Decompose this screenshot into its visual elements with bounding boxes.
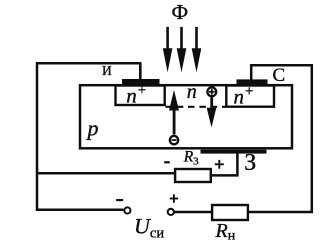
wire: R3 to left vertical [37,172,175,175]
wire: gate down-lead to R3 [212,154,238,176]
electron arrow (up) [169,90,179,135]
p substrate box [80,85,292,148]
gate contact bar [201,150,267,154]
source contact bar [122,79,160,85]
wire: source down-lead [139,63,142,80]
light arrow 2 [177,27,187,73]
wire: left loop (top-left horizontal, left vertical, bottom-left horizontal) [37,63,141,210]
svg-text:R3: R3 [183,149,199,168]
svg-text:Rн: Rн [215,220,236,244]
polarity minus (left of R3) [164,161,170,163]
hole arrow (down) [207,97,217,128]
svg-text:p: p [86,116,99,141]
hole symbol (circled plus) [207,87,216,96]
polarity plus (right of R3) [215,160,224,169]
light arrow 3 [192,27,202,73]
drain contact bar [237,79,268,85]
svg-text:n: n [187,81,197,103]
n+ drain region box [226,86,274,107]
svg-text:С: С [273,65,286,86]
svg-text:Uси: Uси [134,214,164,242]
wire: drain up-lead, top-right horizontal, right vertical, bottom-right horizontal [249,65,312,212]
battery negative terminal [124,207,130,213]
svg-text:И: И [102,63,112,78]
wire: positive terminal to RH [174,211,213,214]
battery plus sign [170,194,178,202]
electron symbol (circled minus) [170,136,178,144]
svg-text:Ф: Ф [172,0,189,24]
load resistor RH box [212,205,248,220]
svg-text:З: З [244,150,256,176]
resistor R3 box [175,169,211,182]
light arrow 1 [163,27,173,73]
battery positive terminal [168,209,174,215]
battery minus sign [116,199,123,201]
channel dashed boundary line [166,106,227,108]
n+ source region box [116,86,165,106]
